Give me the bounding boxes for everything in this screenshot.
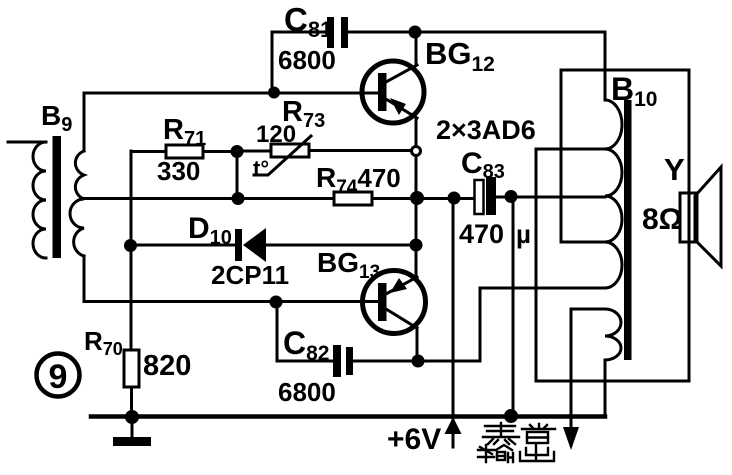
svg-text:6800: 6800 (278, 377, 336, 407)
transformer B10 (605, 33, 657, 416)
svg-text:B10: B10 (611, 71, 657, 111)
svg-text:820: 820 (143, 350, 191, 382)
node R71 lower junction (232, 192, 245, 205)
wire +6V feed (387, 198, 462, 456)
svg-text:BG12: BG12 (425, 36, 495, 76)
wire speaker right (688, 70, 691, 381)
svg-text:C82: C82 (283, 325, 329, 365)
wire junction drop (236, 152, 239, 198)
resistor R70 (84, 326, 191, 417)
wire C82 branch (277, 302, 333, 361)
speaker Y (642, 152, 721, 266)
node C83 right junction (505, 190, 518, 203)
node top rail / BG12 collector (409, 26, 422, 39)
svg-text:6800: 6800 (278, 45, 336, 75)
svg-text:B9: B9 (41, 100, 72, 136)
wire collector to B10 bottom (480, 288, 605, 361)
node C82 tap (270, 296, 283, 309)
resistor R74 (316, 162, 474, 205)
svg-text:t°: t° (253, 156, 269, 181)
node R71-R73 junction (231, 145, 244, 158)
wire mu line (512, 197, 515, 415)
resistor R73 thermistor (237, 96, 411, 181)
wire emitter rail (415, 156, 418, 277)
node D10 left (124, 239, 137, 252)
wire R71 left drop (130, 151, 133, 350)
node bottom mu junction (504, 409, 518, 423)
capacitor C82 (278, 325, 480, 407)
label 2x3AD6 (436, 115, 536, 145)
wire BG12 collector (415, 33, 418, 65)
svg-text:µ: µ (516, 219, 531, 249)
wire C81 left branch (272, 32, 327, 93)
wire tap4 branch (561, 70, 605, 242)
wire C83 output (496, 196, 605, 199)
svg-text:BG13: BG13 (317, 247, 380, 283)
node BG13 collector junction (412, 355, 425, 368)
svg-text:8Ω: 8Ω (642, 203, 683, 236)
wire B9 bottom / BG13 base (84, 300, 378, 303)
wire speaker bottom riser (536, 149, 689, 381)
transistor BG12 (362, 36, 495, 123)
label recording output (478, 423, 555, 462)
capacitor C81 (278, 1, 348, 75)
node emitter / bias junction (410, 191, 424, 205)
svg-text:9: 9 (49, 358, 68, 396)
node +6V tap (448, 192, 461, 205)
wire BG12 emitter (415, 119, 418, 146)
wire BG13 collector (416, 328, 419, 361)
svg-text:C81: C81 (284, 1, 332, 42)
node emitter tap (open) (412, 147, 421, 156)
svg-text:R74470: R74470 (316, 162, 401, 198)
capacitor C83 (459, 147, 531, 249)
wire ground rail (91, 414, 605, 419)
svg-text:2×3AD6: 2×3AD6 (436, 115, 536, 145)
resistor R71 (131, 114, 237, 186)
wire speaker top (561, 69, 689, 72)
wire top rail (348, 31, 605, 34)
svg-text:2CP11: 2CP11 (211, 260, 289, 290)
svg-text:R70: R70 (84, 326, 123, 359)
transistor BG13 (317, 247, 426, 334)
svg-text:Y: Y (664, 152, 685, 187)
svg-text:D10: D10 (188, 212, 232, 249)
ground (113, 417, 151, 446)
node C81-base junction (268, 87, 280, 99)
wire tap2 branch (536, 148, 605, 151)
svg-text:470: 470 (459, 219, 504, 249)
node ground junction (125, 410, 139, 424)
diode D10 (130, 212, 416, 290)
svg-text:R71: R71 (163, 114, 206, 150)
node D10 right on emitter rail (410, 239, 423, 252)
wire secondary top / output (563, 309, 605, 450)
figure number 9 (37, 354, 80, 397)
wire bias line R74 (84, 197, 334, 200)
svg-text:120: 120 (256, 121, 296, 148)
transformer B9 (8, 93, 84, 301)
svg-text:C83: C83 (461, 147, 505, 183)
svg-text:+6V: +6V (387, 423, 441, 456)
wire base line BG12 (85, 92, 378, 95)
svg-text:330: 330 (157, 156, 200, 186)
